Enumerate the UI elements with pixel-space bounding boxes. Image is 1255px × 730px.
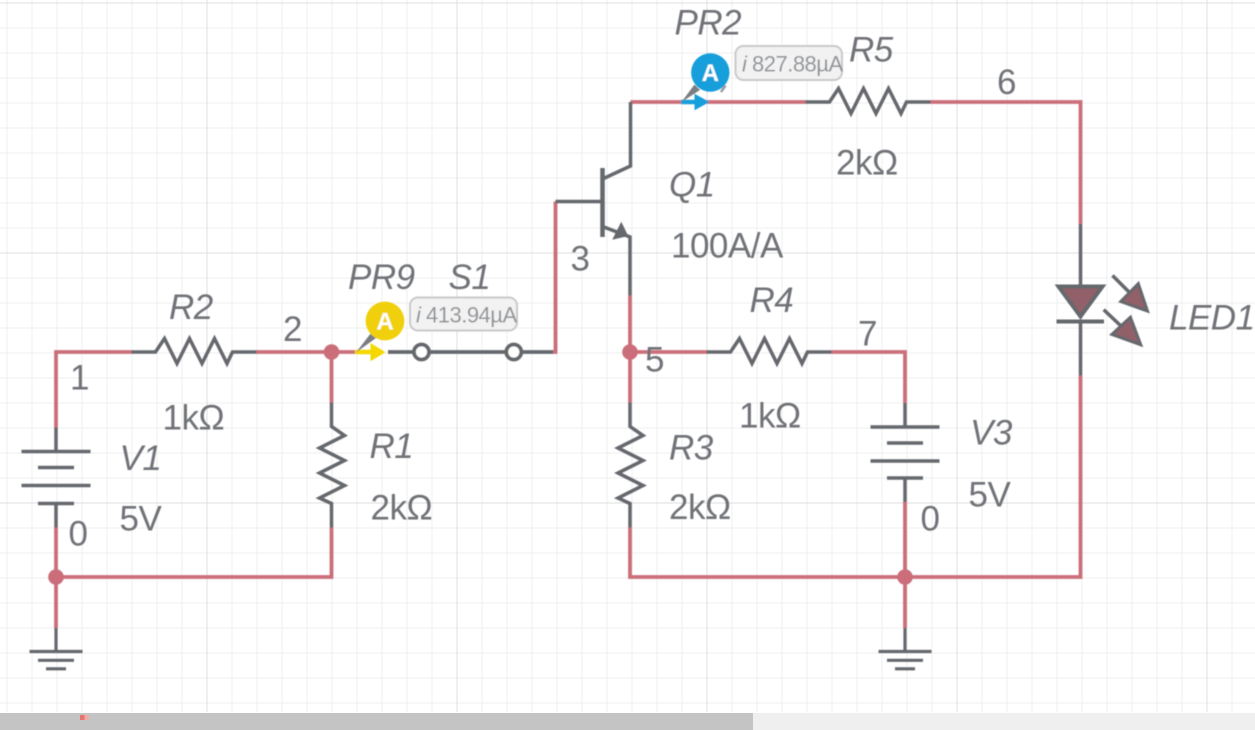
wire net4: Q1 collector to R5: [631, 100, 806, 104]
wire net6: R5 to LED1 anode: [931, 102, 1081, 224]
junction node 0 right: [897, 569, 913, 585]
svg-text:i 413.94µA: i 413.94µA: [416, 303, 517, 328]
svg-text:R1: R1: [370, 427, 414, 466]
probe PR2 blue arrow: [681, 94, 710, 111]
svg-text:2kΩ: 2kΩ: [371, 489, 433, 528]
probe PR9 yellow arrow: [355, 343, 386, 361]
ground left: [30, 628, 83, 669]
wire net3: S1 to Q1 base: [553, 202, 556, 353]
svg-text:5V: 5V: [969, 476, 1012, 515]
svg-text:R4: R4: [750, 281, 794, 320]
svg-text:i 827.88µA: i 827.88µA: [742, 52, 843, 77]
svg-text:0: 0: [69, 515, 88, 554]
probe PR9 needle: [356, 333, 376, 353]
svg-text:V1: V1: [120, 439, 162, 478]
svg-text:A: A: [702, 60, 719, 87]
probe PR2 needle: [682, 85, 701, 103]
svg-text:R3: R3: [669, 429, 714, 468]
wire net0: V3 minus to junction: [903, 502, 907, 577]
resistor R3: [618, 403, 643, 528]
resistor R4: [707, 339, 832, 364]
scrollbar minimap mark: [80, 715, 85, 720]
resistor R2: [132, 339, 257, 364]
svg-text:A: A: [376, 309, 393, 336]
svg-text:R5: R5: [849, 31, 894, 70]
probe PR2 badge: [691, 53, 729, 91]
svg-text:1: 1: [70, 359, 89, 398]
svg-text:S1: S1: [449, 258, 491, 297]
resistor R5: [806, 89, 931, 114]
PR9 value box: [410, 298, 517, 331]
PR2 hidden text fragment: [721, 86, 726, 93]
svg-text:PR2: PR2: [675, 4, 742, 43]
svg-text:1kΩ: 1kΩ: [163, 399, 225, 438]
scrollbar thumb: [0, 713, 753, 730]
ground right: [879, 628, 932, 669]
svg-text:7: 7: [858, 315, 877, 354]
scrollbar track: [0, 713, 1255, 730]
probe PR9 badge: [366, 302, 405, 341]
svg-text:2kΩ: 2kΩ: [669, 488, 731, 527]
PR2 value box: [736, 46, 843, 80]
wire net0L: V1 minus to junction and bottom left rail: [56, 528, 332, 578]
wire net2: node 2 down to R1: [330, 352, 334, 403]
wire net1: V1 plus to R2: [56, 352, 132, 428]
svg-text:5: 5: [645, 341, 664, 380]
wire net5: emitter to node 5: [628, 296, 632, 353]
svg-text:PR9: PR9: [348, 258, 415, 297]
junction node 5: [622, 344, 638, 360]
svg-text:6: 6: [997, 63, 1016, 102]
svg-text:2kΩ: 2kΩ: [836, 144, 898, 183]
svg-text:100A/A: 100A/A: [671, 227, 784, 266]
battery V1: [22, 428, 91, 528]
wire net2: node 2 right toward S1: [332, 350, 361, 354]
battery V3: [871, 403, 940, 502]
svg-text:0: 0: [921, 500, 940, 539]
wire net0: junction to ground right: [903, 577, 907, 628]
svg-text:R2: R2: [169, 288, 213, 327]
junction node 2: [324, 344, 340, 360]
wire net2: R2 to node 2: [257, 350, 332, 354]
svg-text:LED1: LED1: [1169, 299, 1255, 338]
transistor Q1: [556, 102, 631, 296]
LED LED1: [1057, 224, 1148, 376]
wire net7: R4 to V3 plus: [832, 352, 906, 403]
switch S1: [388, 345, 553, 360]
wire net0L: junction to ground left: [54, 577, 58, 628]
svg-text:Q1: Q1: [669, 166, 715, 205]
svg-text:2: 2: [283, 310, 302, 349]
resistor R1: [320, 403, 345, 528]
wire net5: node 5 right to R4: [630, 350, 707, 354]
svg-text:V3: V3: [970, 414, 1013, 453]
junction node 0 left: [48, 569, 64, 585]
wire net0: LED1 cathode down and bottom right rail: [630, 376, 1081, 578]
svg-text:3: 3: [571, 240, 590, 279]
svg-text:1kΩ: 1kΩ: [739, 397, 801, 436]
wire net5: node 5 down to R3: [628, 352, 632, 403]
svg-text:5V: 5V: [120, 500, 163, 539]
